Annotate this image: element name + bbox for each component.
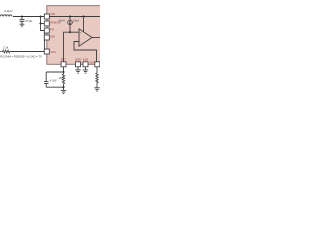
node strap [39,22,41,24]
strap wire to lower pins [41,17,45,31]
svg-text:10µA: 10µA [73,18,79,22]
node input cap [21,15,23,17]
ground G5 under load [94,87,99,89]
pin ILIM [83,62,88,67]
svg-text:4.7µF: 4.7µF [50,78,57,82]
pin 2 RUN [44,21,49,26]
wire rail to current source [69,17,71,21]
OUT pin wire down [96,67,98,73]
inductor L1 [0,15,12,17]
SET pin wire down [63,67,65,72]
svg-text:RUN/SS: RUN/SS [50,20,60,24]
current source I1 [68,20,73,25]
pin 3 [44,28,49,33]
op-amp supply wire [83,17,85,32]
svg-text:2.2k: 2.2k [3,46,9,50]
ground G3 under GND pin [77,67,79,70]
bottom wire cap to resistor [46,86,63,88]
wire node A to op-amp + input [70,31,79,33]
capacitor C2 [45,72,47,81]
node on rail (op-amp supply tap) [82,15,84,17]
VCC row wire [10,51,44,53]
feedback wire from OUT to - input [74,42,97,63]
pin SET [61,62,66,67]
node on rail (current source tap) [69,15,71,17]
svg-text:1M: 1M [58,76,63,80]
svg-text:GND: GND [75,57,81,61]
strap wire pins 3-5 [43,31,45,52]
ground G2 [63,87,65,90]
svg-text:ILIM: ILIM [83,57,89,61]
capacitor C1 [21,17,23,20]
ground under C1 [20,23,25,25]
internal VIN rail wire [49,16,101,18]
op-amp U2 [79,29,92,46]
ground G4 under ILIM pin [85,67,87,70]
node rail branch [39,15,41,17]
resistor R1 RSET [62,72,64,87]
pin OUT [95,62,100,67]
wire node A to SET pin [64,32,71,62]
svg-text:47µF: 47µF [25,19,32,23]
wire current source to node A [69,25,71,33]
node A junction [69,31,71,33]
pin 4 [44,35,49,40]
svg-text:RCOMM = RSENSE • ILOAD = 7V: RCOMM = RSENSE • ILOAD = 7V [0,55,42,59]
pin 1 VIN [44,14,49,19]
resistor R3 [0,50,10,53]
svg-text:2.2µH: 2.2µH [4,9,12,13]
svg-text:SW: SW [50,34,55,38]
svg-text:PG: PG [50,27,54,31]
svg-text:SET: SET [61,57,67,61]
svg-text:VCC: VCC [50,50,56,54]
op-amp output wire [92,37,101,39]
svg-text:OUT: OUT [90,61,96,65]
stub wire to pin 2 [41,23,45,25]
pin 5 VCC [44,49,49,54]
resistor R2 load [96,73,98,88]
svg-text:VIN: VIN [50,12,55,16]
node SET external [62,71,64,73]
input rail wire VIN [13,16,44,18]
IC block U1 [47,6,102,65]
pin GND [76,62,81,67]
node R1 bottom [62,86,64,88]
wire SET node to cap [46,71,63,73]
